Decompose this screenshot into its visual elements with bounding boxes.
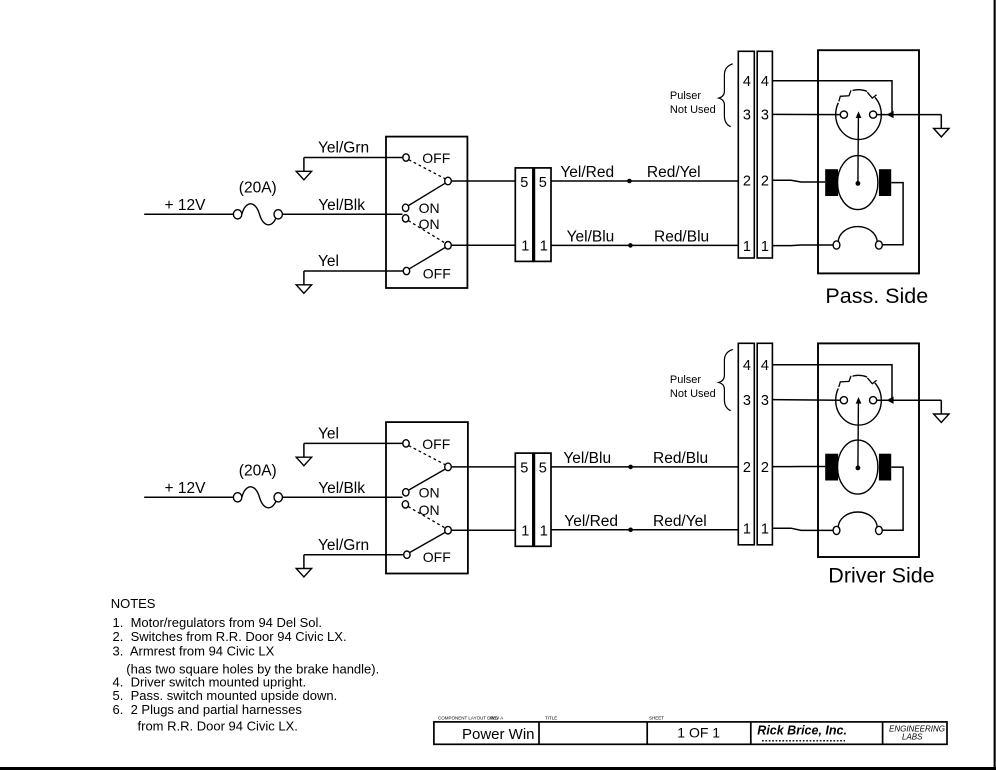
svg-text:LABS: LABS	[902, 733, 923, 742]
title block divider 1	[538, 722, 540, 744]
wire motor brush to limit-switch A	[883, 183, 904, 245]
switch SWA arm upper (ON to common)	[408, 183, 445, 205]
motor assembly box MB	[818, 343, 919, 557]
plug notch right A	[867, 92, 876, 98]
svg-text:OFF: OFF	[422, 436, 450, 452]
svg-text:1: 1	[743, 521, 751, 537]
fuse FA (20A)	[233, 204, 282, 225]
wire fuse to switch B	[282, 496, 402, 498]
plug pin right A	[870, 111, 877, 118]
svg-text:3: 3	[743, 108, 751, 124]
svg-text:1: 1	[761, 239, 769, 255]
svg-text:OFF: OFF	[423, 265, 451, 281]
wire +12V to fuse B	[144, 496, 233, 498]
wire pin1 to limit-switch B	[772, 528, 833, 530]
wire Yel/Blu/Red/Blu row B	[551, 466, 738, 468]
svg-text:(20A): (20A)	[239, 180, 277, 197]
connector J1A right half	[534, 168, 551, 262]
switch SWB contact OFF top	[403, 440, 409, 447]
switch SWB body	[386, 422, 468, 573]
wire pin1 to limit-switch A	[772, 244, 833, 247]
fuse FB (20A)	[233, 487, 282, 508]
plug pin left B	[840, 397, 847, 404]
plug notch erase right B	[867, 377, 875, 383]
svg-text:4: 4	[761, 358, 769, 374]
svg-text:Driver Side: Driver Side	[828, 564, 934, 588]
limit-switch arc B	[838, 512, 877, 528]
motor body A	[838, 156, 878, 210]
svg-text:OFF: OFF	[422, 150, 450, 166]
svg-text:Yel/Grn: Yel/Grn	[318, 140, 369, 157]
svg-text:Not Used: Not Used	[670, 104, 716, 116]
switch SWA contact OFF bottom	[403, 267, 409, 274]
svg-text:Pass. Side: Pass. Side	[825, 284, 928, 308]
brace pulser B	[719, 349, 733, 410]
connector J2A left half	[738, 51, 754, 258]
connector J1B divider	[532, 453, 535, 546]
svg-text:from R.R. Door 94 Civic LX.: from R.R. Door 94 Civic LX.	[138, 718, 298, 733]
svg-text:Yel/Red: Yel/Red	[564, 513, 618, 530]
wire Yel/Red/Red/Yel row A	[551, 180, 738, 182]
title block outer frame	[434, 722, 947, 744]
svg-text:+ 12V: + 12V	[165, 480, 207, 497]
svg-text:3: 3	[743, 393, 751, 409]
title block company underline	[762, 740, 845, 742]
svg-text:Not Used: Not Used	[670, 388, 716, 400]
motor brush left A	[825, 169, 838, 196]
svg-text:5. Pass. switch mounted upsid: 5. Pass. switch mounted upside down.	[113, 688, 338, 703]
switch SWB arm lower (OFF to common)	[410, 532, 446, 552]
switch SWA contact common upper	[445, 177, 452, 185]
svg-text:OFF: OFF	[423, 549, 451, 565]
svg-text:2: 2	[761, 174, 769, 190]
plug-to-motor axis line A	[857, 118, 860, 183]
switch SWB contact ON 2	[402, 501, 408, 508]
wire Yel branch B	[304, 442, 403, 444]
connector J1A left half	[515, 168, 533, 262]
switch SWA contact ON 1	[402, 204, 408, 211]
switch SWB contact common lower	[445, 526, 452, 534]
svg-text:ON: ON	[419, 200, 440, 216]
ground switch bottom A	[296, 271, 311, 293]
svg-text:ON: ON	[419, 502, 440, 518]
svg-text:2: 2	[761, 460, 769, 476]
wire Yel/Grn branch B	[304, 554, 403, 556]
wire pin2 to motor brush B	[772, 466, 825, 468]
connector J2B left half	[738, 343, 754, 545]
connector J2B right half	[757, 343, 772, 545]
wire pin4 to junction B	[772, 365, 892, 399]
svg-text:Red/Blu: Red/Blu	[654, 228, 709, 245]
wire plug to ground A	[877, 114, 942, 116]
switch SWA contact common lower	[445, 242, 452, 250]
svg-text:(20A): (20A)	[239, 463, 277, 480]
limit-switch terminal right A	[876, 241, 883, 249]
switch SWB contact common upper	[445, 463, 452, 471]
svg-text:1: 1	[540, 239, 548, 255]
svg-text:2: 2	[743, 174, 751, 190]
svg-text:1: 1	[540, 523, 548, 539]
switch SWB arm upper (ON to common)	[409, 469, 446, 490]
wire pin4 to junction A	[772, 81, 892, 114]
plug center key arrow B	[856, 397, 862, 404]
motor center dot B	[856, 466, 861, 471]
svg-text:Red/Yel: Red/Yel	[647, 164, 701, 181]
svg-text:4: 4	[761, 74, 769, 90]
svg-text:5: 5	[520, 175, 528, 191]
svg-text:Yel: Yel	[318, 253, 339, 270]
svg-text:Yel/Blk: Yel/Blk	[318, 480, 365, 497]
limit-switch arc A	[838, 227, 877, 243]
svg-text:Yel: Yel	[318, 426, 339, 443]
switch SWA arm lower (OFF to common)	[409, 248, 445, 269]
motor brush left B	[825, 454, 838, 481]
plug notch erase left B	[838, 376, 852, 388]
svg-text:Red/Blu: Red/Blu	[653, 450, 708, 467]
switch SWB dashed ON2 link	[408, 507, 445, 528]
plug connector outline A	[836, 90, 882, 140]
wire switch common lower to J1 B	[451, 529, 515, 531]
plug notch right B	[867, 378, 876, 384]
ground motor B	[934, 400, 949, 422]
svg-text:Power Win: Power Win	[462, 726, 535, 743]
wire Yel/Red/Red/Yel row B	[551, 529, 738, 531]
svg-text:2. Switches from R.R. Door 94: 2. Switches from R.R. Door 94 Civic LX.	[113, 629, 347, 644]
wire pin2 to motor brush A	[772, 180, 825, 182]
switch SWA contact ON 2	[402, 215, 408, 222]
wire plug to ground B	[877, 399, 942, 401]
svg-text:ON: ON	[419, 216, 440, 232]
switch SWB dashed OFF-top link	[409, 446, 446, 465]
wire switch common upper to J1 B	[451, 466, 515, 468]
svg-text:4: 4	[743, 74, 751, 90]
switch SWA dashed OFF-top link	[409, 160, 446, 179]
switch SWA body	[386, 137, 467, 288]
switch SWA dashed ON2 link	[408, 221, 445, 244]
svg-text:1 OF 1: 1 OF 1	[677, 725, 720, 741]
svg-text:Yel/Blk: Yel/Blk	[318, 197, 365, 214]
connector J2A right half	[757, 51, 772, 258]
svg-text:Rick Brice, Inc.: Rick Brice, Inc.	[757, 724, 847, 738]
junction node Red/Yel B	[628, 528, 633, 533]
motor body B	[838, 440, 878, 494]
junction node Red/Blu B	[628, 465, 633, 470]
plug-to-motor axis line B	[857, 403, 860, 467]
limit-switch terminal left B	[833, 526, 840, 534]
svg-text:Pulser: Pulser	[670, 90, 702, 102]
svg-text:3. Armrest from 94 Civic LX: 3. Armrest from 94 Civic LX	[113, 644, 275, 659]
wire Yel/Blu/Red/Blu row A	[551, 244, 738, 246]
svg-text:5: 5	[539, 461, 547, 477]
connector J1A divider	[532, 168, 535, 262]
plug notch erase left A	[838, 91, 852, 103]
svg-text:Yel/Blu: Yel/Blu	[567, 228, 615, 245]
svg-text:Yel/Blu: Yel/Blu	[563, 450, 611, 467]
svg-text:3: 3	[761, 393, 769, 409]
junction node Red/Blu A	[628, 243, 633, 248]
svg-text:TITLE: TITLE	[545, 716, 557, 721]
wire Yel/Grn branch A	[304, 157, 403, 159]
limit-switch terminal right B	[876, 526, 883, 534]
switch SWB contact OFF bottom	[404, 551, 410, 558]
plug pin right B	[870, 397, 877, 404]
svg-text:3: 3	[761, 108, 769, 124]
svg-text:Pulser: Pulser	[670, 374, 702, 386]
junction node Red/Yel A	[627, 179, 632, 184]
switch SWA contact OFF top	[403, 154, 409, 161]
svg-text:5: 5	[539, 175, 547, 191]
title block divider 3	[750, 722, 752, 744]
brace pulser A	[719, 64, 733, 127]
connector J1B left half	[515, 453, 533, 546]
svg-text:4: 4	[743, 358, 751, 374]
page border bottom	[0, 767, 996, 770]
plug notch left A	[839, 90, 851, 101]
svg-text:1: 1	[743, 239, 751, 255]
svg-text:NOTES: NOTES	[111, 596, 156, 611]
plug notch erase right A	[867, 92, 875, 98]
svg-text:6. 2 Plugs and partial harnes: 6. 2 Plugs and partial harnesses	[113, 702, 303, 717]
junction arrow node B	[887, 397, 894, 404]
plug connector outline B	[836, 375, 882, 425]
svg-text:SHEET: SHEET	[649, 716, 664, 721]
ground switch top A	[296, 158, 311, 180]
ground motor A	[934, 115, 949, 137]
ground switch bottom B	[296, 555, 311, 577]
svg-text:REV A: REV A	[490, 716, 503, 721]
title block divider 4	[882, 722, 884, 744]
motor brush right A	[879, 169, 891, 196]
svg-text:5: 5	[520, 461, 528, 477]
plug notch left B	[839, 376, 851, 387]
svg-text:Yel/Grn: Yel/Grn	[318, 537, 369, 554]
plug center key arrow A	[856, 111, 862, 118]
wire fuse to switch A	[282, 213, 402, 215]
svg-text:ON: ON	[419, 484, 440, 500]
wire switch common lower to J1 A	[451, 244, 515, 246]
svg-text:1: 1	[521, 239, 529, 255]
wire switch common upper to J1 A	[451, 180, 515, 182]
svg-text:1: 1	[761, 521, 769, 537]
motor center dot A	[856, 181, 861, 186]
wire pin3 to plug A	[772, 113, 840, 115]
motor brush right B	[879, 454, 891, 481]
motor assembly box MA	[818, 50, 919, 273]
svg-text:1. Motor/regulators from 94 D: 1. Motor/regulators from 94 Del Sol.	[113, 615, 323, 630]
page border right	[994, 0, 996, 770]
limit-switch terminal left A	[833, 241, 840, 249]
svg-text:2: 2	[743, 460, 751, 476]
plug pin left A	[840, 111, 847, 118]
wire pin3 to plug B	[772, 399, 840, 402]
switch SWB contact ON 1	[403, 489, 409, 496]
title block divider 2	[646, 722, 648, 744]
wire Yel branch A	[304, 270, 403, 272]
ground switch top B	[296, 443, 311, 465]
svg-text:+ 12V: + 12V	[165, 197, 207, 214]
junction arrow node A	[887, 111, 894, 118]
wire +12V to fuse A	[144, 213, 233, 215]
svg-text:Yel/Red: Yel/Red	[560, 164, 614, 181]
wire motor brush to limit-switch B	[883, 467, 904, 530]
svg-text:Red/Yel: Red/Yel	[653, 513, 707, 530]
connector J1B right half	[534, 453, 551, 546]
svg-text:1: 1	[521, 523, 529, 539]
